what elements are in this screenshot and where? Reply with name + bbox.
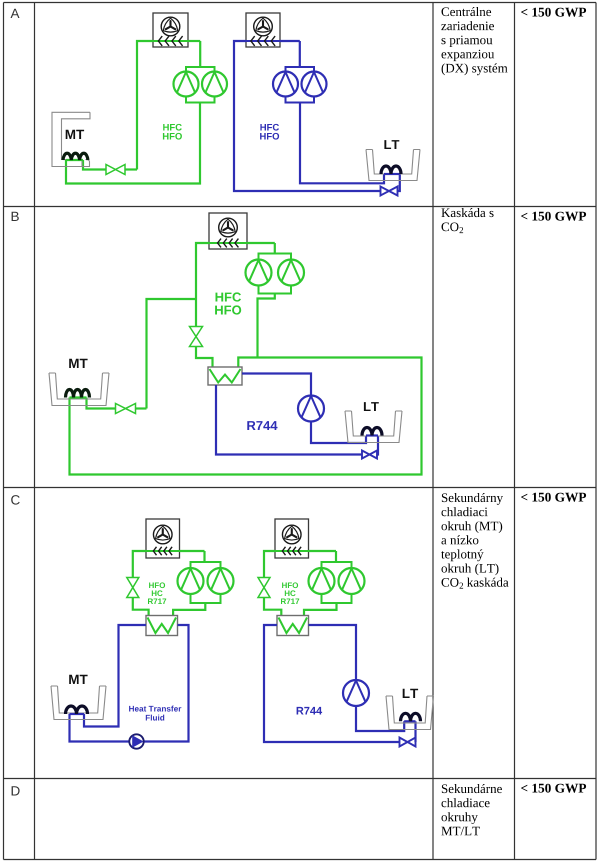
wire A: green liquid line valve outlet	[83, 160, 106, 170]
condenser fan unit A1 (green circuit)	[153, 13, 188, 47]
label LT (row C)	[403, 689, 418, 698]
wire B: green line MT coil feed	[87, 398, 116, 409]
MT display tub C	[51, 686, 106, 720]
wire C2: green line condenser to valve	[264, 551, 275, 578]
wire C1: blue return line with pump	[70, 625, 189, 742]
label R744 (row C)	[297, 707, 323, 715]
label HFO HC R717 (C1)	[148, 582, 166, 604]
wire B: green line valve to MT coil	[136, 407, 147, 409]
label HFC HFO (row A blue)	[260, 124, 279, 140]
expansion valve B (green, cascade)	[190, 327, 203, 347]
wire C1: green line condenser to valve	[133, 551, 146, 578]
wire A: blue pipe condenser right	[280, 40, 300, 42]
MT evaporator coil C	[66, 706, 88, 714]
condenser fan unit C1	[146, 519, 180, 558]
wire A: blue discharge line compressor to condenser	[299, 41, 301, 67]
CO2 pump B	[298, 396, 324, 422]
wire A: green pipe through MT coil	[66, 159, 83, 161]
wire A: green pipe condenser right	[188, 40, 200, 42]
label LT (row B)	[364, 402, 379, 411]
wire C1: green discharge line	[203, 551, 205, 562]
label MT (row C)	[69, 675, 87, 684]
wire A: blue pipe through LT coil	[384, 173, 400, 175]
wire C2: blue liquid line HX to valve	[264, 625, 400, 742]
wire B: green pipe through MT coil	[70, 396, 87, 398]
heat exchanger C2	[277, 616, 309, 636]
condenser fan unit A2 (blue circuit)	[246, 13, 280, 47]
wire A: green liquid line condenser to valve	[137, 41, 153, 170]
wire A: blue liquid line valve to LT coil	[398, 174, 400, 191]
LT display tub C	[386, 696, 434, 730]
wire C1: green pipe condenser right	[180, 550, 205, 552]
MT display tub B	[49, 373, 109, 406]
wire A: green liquid line valve to MT coil	[125, 168, 137, 170]
compressor pair A (blue)	[273, 67, 327, 103]
wire B: blue liquid line HX to valve	[216, 385, 362, 455]
label HFC HFO (row B)	[215, 292, 241, 314]
wire B: blue line HX to pump	[242, 374, 311, 396]
expansion valve C1 (green)	[127, 578, 139, 598]
wire B: green line valve to heat exchanger	[196, 347, 213, 368]
row label D	[12, 786, 20, 795]
row A GWP	[521, 8, 586, 17]
wire C1: blue pipe through MT coil	[70, 713, 85, 715]
cascade heat exchanger B	[208, 367, 242, 385]
wire B: green suction line with jog	[258, 294, 275, 358]
LT evaporator coil C	[401, 713, 421, 721]
row D GWP	[521, 784, 586, 793]
label R744 (row B)	[247, 421, 277, 430]
circulation pump C1	[129, 734, 143, 748]
wire B: blue line valve to LT coil	[377, 436, 378, 455]
compressor pair C1 (green)	[178, 562, 234, 603]
condenser fan unit C2	[275, 519, 309, 558]
wire B: green line condenser to expansion valve	[196, 243, 209, 327]
label MT (row A)	[66, 130, 84, 139]
expansion valve A (blue, LT)	[381, 187, 398, 196]
expansion valve B (blue, LT)	[362, 451, 377, 459]
LT evaporator coil B	[362, 428, 382, 436]
wire C2: blue line valve to LT coil	[414, 721, 416, 742]
row C GWP	[521, 493, 586, 502]
LT display tub B	[345, 411, 402, 443]
wire C1: green suction line	[173, 603, 205, 616]
wire A: blue suction line compressors to LT coil	[300, 103, 384, 184]
CO2 compressor C2	[343, 680, 369, 706]
wire B: green pipe condenser right	[247, 242, 275, 244]
wire C2: green discharge line	[335, 551, 337, 562]
heat exchanger C1	[146, 616, 178, 636]
row A description text	[441, 7, 507, 75]
wire C1: blue line HX left down	[84, 625, 146, 727]
label MT (row B)	[69, 359, 87, 368]
wire B: green MT liquid branch	[147, 299, 197, 409]
compressor pair A (green)	[174, 67, 228, 103]
row B description text	[441, 208, 493, 233]
wire C2: green suction line	[304, 603, 337, 616]
LT evaporator coil A	[381, 166, 401, 174]
wire B: green discharge line	[274, 243, 276, 254]
label LT (row A)	[384, 140, 399, 149]
row B GWP	[521, 212, 586, 221]
wire C2: blue pipe through LT coil	[404, 720, 415, 722]
compressor pair B (green)	[246, 254, 305, 294]
wire C2: green line valve to HX	[264, 598, 281, 616]
wire A: blue liquid line condenser to valve	[234, 41, 381, 191]
row D description text	[441, 784, 502, 835]
wire C2: green pipe condenser right	[309, 550, 337, 552]
LT display tub A	[366, 150, 420, 181]
label Heat Transfer Fluid	[129, 706, 181, 721]
wire B: blue pipe through LT coil	[366, 434, 378, 436]
expansion valve A (green, MT)	[106, 165, 125, 175]
wire A: green suction line MT coil to compressors	[66, 103, 200, 184]
wire B: blue line pump to LT coil	[311, 422, 366, 444]
condenser fan unit B (green)	[209, 213, 247, 249]
MT display case A	[52, 112, 90, 166]
wire C2: blue line compressor to LT coil	[356, 706, 404, 731]
expansion valve C2 (blue, LT)	[400, 738, 416, 747]
compressor pair C2 (green)	[309, 562, 365, 603]
row C description text	[441, 493, 508, 589]
expansion valve B (green, MT)	[116, 404, 136, 414]
label HFO HC R717 (C2)	[281, 582, 299, 604]
wire B: green suction header	[70, 358, 422, 475]
MT evaporator coil B	[66, 390, 90, 398]
wire C2: blue line HX to compressor	[309, 625, 357, 680]
expansion valve C2 (green)	[258, 578, 270, 598]
wire C1: green line valve to HX	[133, 598, 149, 616]
wire A: green discharge line compressor to condenser	[199, 41, 201, 67]
label HFC HFO (row A green)	[163, 124, 182, 140]
row label C	[11, 495, 20, 505]
row label B	[12, 212, 19, 221]
row label A	[11, 9, 20, 18]
MT evaporator coil A	[63, 153, 88, 160]
